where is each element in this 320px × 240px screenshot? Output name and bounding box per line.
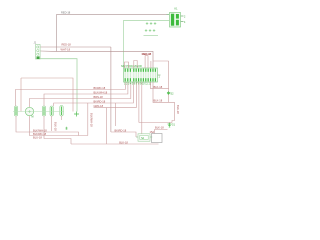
wire left loop vertical	[20, 78, 22, 112]
wire from v111 to fuse BK/RD	[111, 132, 136, 137]
wire C down	[44, 116, 71, 144]
svg-text:BK/RD-18: BK/RD-18	[94, 100, 106, 104]
wire R2 BLK-18	[153, 82, 169, 102]
ground G1 green	[168, 123, 172, 128]
module U1 wire row5	[94, 82, 137, 108]
module pin drop x141.8 to fuse box	[141, 82, 143, 134]
module U1 body	[124, 68, 158, 82]
svg-text:RED-18: RED-18	[142, 52, 152, 56]
switch S3 capsule C	[42, 106, 45, 116]
wire A down	[16, 116, 79, 136]
module U1 wire row1 to switch A	[16, 82, 126, 106]
svg-text:RED-18: RED-18	[61, 11, 71, 15]
module U1 wire row2 to C	[44, 82, 128, 106]
svg-text:BLK-18: BLK-18	[154, 85, 163, 89]
svg-text:BRN-18: BRN-18	[94, 95, 104, 99]
splice X1 green cross	[74, 112, 79, 117]
module U1 right pin stub	[158, 74, 161, 76]
module pin to right rail wire y61	[151, 61, 169, 68]
svg-text:NAV PROCESSOR: NAV PROCESSOR	[121, 65, 142, 68]
svg-text:BLK-18: BLK-18	[176, 105, 180, 114]
svg-text:BLK/WH-18: BLK/WH-18	[90, 113, 94, 127]
wire B down	[30, 116, 88, 136]
svg-text:BLK/WH-18: BLK/WH-18	[94, 91, 108, 95]
relay right pin stubs	[181, 16, 184, 22]
green underline bar	[144, 35, 159, 37]
svg-text:GRN-18: GRN-18	[94, 104, 104, 108]
svg-text:BLK-18: BLK-18	[119, 140, 128, 144]
motor M1 circle B	[25, 107, 33, 118]
switch S4 capsule D	[50, 106, 53, 116]
green link wire across components	[13, 111, 64, 113]
module top pin bridge 1-2	[125, 62, 129, 68]
splice S1 green	[167, 91, 170, 95]
dangling vertical x115.3	[114, 103, 116, 126]
svg-text:BK/RD-18: BK/RD-18	[115, 128, 127, 132]
module pin drop x138.9	[138, 82, 140, 123]
module top pin bridge right	[145, 56, 148, 68]
wire ground to box BLK-18	[155, 130, 168, 134]
svg-text:M: M	[32, 116, 34, 119]
ground G2 small green	[65, 127, 68, 130]
svg-text:BLK/WH-18: BLK/WH-18	[33, 128, 47, 132]
wire J1 pin2 WHT-18 long	[41, 51, 154, 68]
wire y122 horizontal	[139, 122, 172, 124]
wire right rail jog down	[169, 102, 175, 122]
connector J1 body	[36, 45, 41, 60]
switch S2 capsule A	[14, 106, 17, 116]
svg-text:15A: 15A	[150, 130, 155, 134]
wire pin1 vertical drop at 111	[110, 47, 112, 132]
module U1 wire row3 to B	[30, 82, 131, 107]
module U1 wire row4 to D	[54, 82, 134, 106]
wire row4 branch down at 87.8	[87, 103, 89, 136]
svg-text:BLK-18: BLK-18	[154, 99, 163, 103]
wire D down stub	[51, 116, 53, 131]
fuse right pin	[150, 136, 152, 138]
svg-text:BLK/RD-18: BLK/RD-18	[33, 132, 47, 136]
fuse F1 green box	[138, 134, 150, 141]
wire4 bottom long BLK-18	[71, 143, 159, 145]
svg-text:BLK-18: BLK-18	[155, 126, 164, 130]
fuse left pin	[136, 136, 138, 138]
svg-text:5A: 5A	[141, 137, 144, 140]
row5 drop x106.3	[105, 108, 107, 144]
switch S5 capsule E	[60, 106, 63, 117]
wire E down stub	[61, 116, 63, 120]
module top pin bridge mid	[134, 61, 137, 69]
splice cluster green plus marks row2	[145, 29, 156, 32]
svg-text:BLU-18: BLU-18	[33, 135, 42, 139]
relay left pin stub	[167, 13, 170, 15]
wire J1 pin1 RED-18	[41, 46, 111, 48]
wire top-left vertical drop	[56, 14, 58, 51]
wire left loop upper	[21, 78, 73, 112]
svg-text:BLK-18: BLK-18	[54, 122, 58, 131]
svg-text:1 2 3 4 5 6 7 8 9 10 11 12: 1 2 3 4 5 6 7 8 9 10 11 12	[124, 83, 152, 86]
connector box C2 gray	[152, 134, 163, 143]
green wire J1 bottom pin	[40, 59, 77, 112]
wire top main RED-18 horizontal	[57, 13, 167, 15]
svg-text:RED-18: RED-18	[62, 43, 72, 47]
svg-text:WHT-18: WHT-18	[61, 47, 71, 51]
right rail vertical	[168, 61, 170, 102]
relay K1 body	[170, 13, 181, 28]
svg-text:BK/RD-18: BK/RD-18	[94, 86, 106, 90]
green wire relay to module	[124, 21, 170, 69]
splice cluster green plus marks row1	[146, 22, 157, 25]
wire R1 BLK-18	[151, 82, 169, 89]
